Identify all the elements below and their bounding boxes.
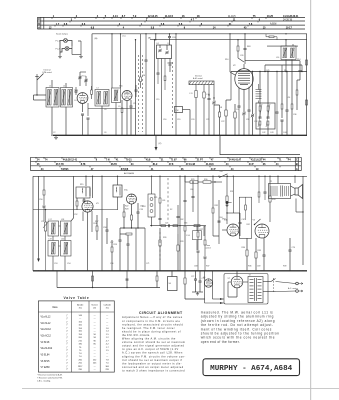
resistor R2	[91, 86, 93, 99]
svg-text:(C): (C)	[123, 36, 126, 38]
svg-text:L1: L1	[49, 85, 51, 87]
right edge component column	[296, 34, 307, 136]
detector filter box	[186, 226, 202, 250]
V4 grid network	[212, 176, 227, 244]
locating strip frame top	[37, 17, 305, 29]
arrow lower left	[37, 256, 40, 262]
capacitor C41	[276, 71, 279, 135]
mains unit box	[224, 274, 268, 305]
svg-text:R19: R19	[114, 244, 117, 246]
svg-text:A.C. mains: A.C. mains	[288, 287, 298, 290]
capacitor C15 below discriminator	[157, 59, 160, 85]
mid strip numbers row 3	[40, 166, 280, 171]
wires IF block	[53, 176, 77, 270]
trimmer TC1	[78, 72, 87, 86]
svg-text:output and the signal generato: output and the signal generator adjusted	[122, 344, 185, 348]
resistor R28	[177, 234, 179, 271]
svg-text:C23: C23	[165, 223, 168, 225]
resistor R26	[159, 228, 161, 271]
pilot lamp PL1	[56, 39, 68, 43]
HT rail top	[92, 34, 307, 90]
svg-text:47.41.48: 47.41.48	[186, 163, 196, 166]
svg-text:71 97: 71 97	[171, 160, 178, 162]
FM discriminator trimmer box	[157, 43, 172, 59]
svg-text:C52: C52	[74, 214, 77, 216]
svg-text:T1: T1	[270, 181, 272, 183]
svg-text:11,16,5: 11,16,5	[165, 15, 174, 18]
svg-text:A.C.) across the speech coil L: A.C.) across the speech coil L28. When	[122, 351, 183, 355]
svg-text:MURPHY - A674,A684: MURPHY - A674,A684	[210, 365, 292, 373]
output valve V5	[255, 224, 269, 238]
svg-text:control: control	[205, 247, 211, 250]
HT rail lower section	[33, 175, 307, 177]
mains transformer T2	[248, 275, 263, 303]
svg-text:4,14: 4,14	[113, 15, 118, 18]
svg-text:8/7(4)8: 8/7(4)8	[121, 168, 129, 171]
svg-text:L18: L18	[61, 219, 64, 221]
chassis earth bus top section	[53, 134, 307, 136]
svg-text:R17: R17	[95, 221, 98, 223]
svg-text:C.54: C.54	[186, 235, 190, 237]
junction dots lower bus	[38, 270, 304, 271]
MW aerial coil L11	[190, 85, 198, 135]
svg-text:S2: S2	[170, 209, 172, 211]
svg-text:C53: C53	[54, 263, 57, 265]
capacitor C55	[83, 198, 86, 203]
svg-text:C43: C43	[270, 132, 273, 134]
mains dropper	[184, 271, 205, 299]
svg-text:(A): (A)	[95, 37, 98, 40]
svg-text:45,8: 45,8	[146, 159, 151, 162]
strip numbers row 4	[49, 27, 293, 30]
oscillator coil L4 can	[112, 88, 121, 103]
loudspeaker	[295, 185, 303, 199]
ground scale lamps right	[80, 55, 82, 57]
IF transformer IFT3 can pair	[48, 238, 71, 256]
svg-text:C62: C62	[180, 219, 183, 221]
svg-text:43,21,6,25: 43,21,6,25	[251, 159, 263, 162]
svg-text:trol should be set at maximum: trol should be set at maximum output if	[122, 358, 182, 362]
valve table rows	[41, 315, 110, 371]
left edge column	[33, 176, 39, 270]
svg-text:24 P: 24 P	[211, 168, 216, 171]
IF amplifier valve V3	[82, 201, 93, 212]
labels above lower bus	[194, 266, 286, 268]
svg-text:C69: C69	[257, 266, 260, 268]
svg-text:{†: {†	[67, 362, 69, 364]
svg-text:C67: C67	[242, 219, 245, 221]
svg-text:V1a 6L12: V1a 6L12	[41, 316, 52, 318]
svg-text:12,13,15: 12,13,15	[148, 15, 158, 18]
svg-text:CIRCUIT ALIGNMENT: CIRCUIT ALIGNMENT	[139, 311, 183, 315]
svg-text:295†: 295†	[78, 366, 83, 368]
svg-text:C21: C21	[206, 119, 209, 121]
svg-text:B: B	[296, 162, 298, 166]
svg-text:C50: C50	[39, 199, 42, 201]
svg-text:L10: L10	[276, 57, 279, 59]
svg-text:Internal: Internal	[44, 68, 51, 71]
svg-text:(V): (V)	[79, 308, 82, 310]
svg-text:8,7: 8,7	[122, 15, 126, 18]
svg-text:C42: C42	[262, 132, 265, 134]
svg-text:R39: R39	[283, 266, 286, 268]
svg-text:V5 EL84: V5 EL84	[41, 355, 51, 357]
smoothing electrolytics C72 C73	[191, 271, 205, 295]
svg-text:C66: C66	[190, 189, 193, 191]
detector load network	[123, 203, 143, 228]
svg-text:to match 3 ohms impedance is c: to match 3 ohms impedance is connected	[122, 368, 185, 372]
V5 screen components	[258, 176, 266, 203]
IF transformer IFT2 can pair	[48, 219, 71, 236]
svg-text:or components in the F.M. circ: or components in the F.M. circuits are	[122, 319, 180, 323]
svg-text:V2b 6C12: V2b 6C12	[41, 335, 52, 337]
capacitor C58	[103, 218, 109, 244]
model title box	[203, 359, 300, 376]
circuit alignment paragraph 2	[122, 337, 186, 373]
grid resistor R19	[111, 240, 117, 271]
svg-text:R21: R21	[154, 197, 157, 199]
trimmer C32b	[251, 71, 254, 135]
svg-text:C63: C63	[184, 222, 187, 224]
capacitor C9	[130, 100, 133, 116]
svg-text:Internal: Internal	[195, 75, 202, 78]
svg-text:L3: L3	[97, 87, 99, 89]
svg-text:C70: C70	[292, 247, 295, 249]
svg-text:{†: {†	[67, 324, 69, 326]
pilot lamp PL2	[56, 47, 70, 51]
strip numbers row 1	[52, 15, 274, 19]
svg-text:Screen: Screen	[91, 304, 98, 307]
mid strip numbers row 1	[36, 157, 291, 161]
svg-text:C56: C56	[110, 263, 113, 265]
speaker wires	[277, 176, 295, 196]
svg-text:(V): (V)	[106, 308, 109, 310]
svg-text:S4: S4	[169, 283, 171, 285]
svg-text:11,16,5: 11,16,5	[228, 16, 236, 18]
V3 stage wires	[83, 176, 103, 271]
screen feed resistor	[269, 176, 276, 222]
svg-text:T2: T2	[249, 275, 251, 277]
rectifier wires	[228, 271, 248, 297]
svg-text:L2: L2	[63, 85, 65, 87]
mains switch S5	[263, 278, 276, 292]
svg-text:C11: C11	[133, 103, 136, 105]
capacitor C39 on V2 pin	[248, 100, 251, 135]
chassis earth bus lower section	[33, 270, 307, 272]
svg-text:volume control should be set a: volume control should be set at maximum	[122, 340, 185, 344]
svg-text:S10: S10	[220, 171, 223, 173]
svg-text:C68: C68	[194, 266, 197, 268]
svg-text:81.9: 81.9	[153, 164, 158, 166]
smoothing capacitor C65	[192, 181, 195, 212]
svg-text:C24: C24	[172, 37, 175, 39]
svg-text:41.46,6: 41.46,6	[206, 163, 214, 166]
junction dots chassis bus	[51, 135, 292, 136]
svg-text:‡ A.C. reading.: ‡ A.C. reading.	[37, 380, 51, 383]
switch S2 dashes left	[159, 232, 161, 234]
switch gang dashed line left	[138, 55, 140, 57]
decoupling electrolytic with ground	[222, 176, 234, 221]
oscillator valve V1b	[122, 91, 132, 101]
svg-text:L26: L26	[287, 97, 290, 99]
switch gang dashes mid	[172, 62, 174, 64]
tone capacitor C70	[289, 238, 295, 271]
svg-text:74/78/1: 74/78/1	[61, 168, 69, 171]
svg-text:L.W: L.W	[175, 110, 178, 112]
AM IFT cluster box	[256, 71, 275, 135]
svg-text:R18: R18	[94, 223, 97, 225]
oscillator section L8	[220, 72, 231, 136]
svg-text:L20: L20	[61, 238, 64, 240]
negative feedback line	[296, 176, 304, 265]
LW aerial coil L12	[203, 85, 210, 135]
svg-text:C26: C26	[240, 55, 243, 57]
svg-text:should be in place during alig: should be in place during alignment of	[122, 329, 181, 333]
svg-text:47.8: 47.8	[169, 163, 174, 166]
output transformer T1	[269, 181, 291, 198]
svg-text:be realigned. The F.M. tuner: be realigned. The F.M. tuner cover	[122, 326, 175, 330]
strip numbers row 2	[70, 19, 261, 23]
aerial feeder wires	[34, 94, 47, 100]
capacitor C7	[135, 85, 138, 97]
V3 grid cluster box	[76, 184, 90, 198]
svg-text:Anode: Anode	[77, 304, 84, 307]
svg-text:A: A	[296, 167, 298, 171]
valve table footnotes	[37, 373, 63, 382]
HT dropper resistors	[185, 176, 222, 183]
svg-text:R26: R26	[163, 237, 166, 239]
svg-text:F/M aerial: F/M aerial	[43, 71, 53, 74]
internal FM aerial label	[43, 68, 53, 74]
FM aerial dipole	[35, 74, 43, 96]
svg-text:open end of the former.: open end of the former.	[201, 340, 240, 344]
coupling capacitor C67	[226, 212, 245, 236]
detector output chain	[150, 222, 204, 236]
svg-text:C60: C60	[140, 206, 143, 208]
svg-text:24 26 36: 24 26 36	[283, 20, 293, 22]
tone switch enclosure box	[239, 197, 251, 238]
svg-text:C51: C51	[41, 221, 44, 223]
resistor R21	[159, 196, 161, 212]
svg-text:Cathode: Cathode	[104, 304, 111, 307]
svg-text:R22: R22	[125, 206, 128, 208]
capacitor C17	[208, 85, 211, 135]
svg-text:{†: {†	[67, 369, 69, 371]
V2 anode ladder ticks	[256, 84, 262, 103]
valve table box	[38, 301, 114, 372]
svg-text:R31: R31	[215, 205, 218, 207]
FM RF coil L2 can	[61, 88, 73, 108]
circuit alignment paragraph 1	[122, 315, 183, 337]
rectifier valve V7	[228, 276, 243, 288]
mid strip numbers row 2	[36, 161, 279, 166]
svg-text:V1b 6L12: V1b 6L12	[41, 323, 52, 325]
component value labels	[41, 55, 300, 265]
resistor R6	[140, 70, 145, 88]
svg-text:When aligning the A.M. circuit: When aligning the A.M. circuits the	[122, 337, 176, 341]
svg-text:L9: L9	[237, 109, 239, 111]
ratio detector transformer	[113, 176, 122, 210]
svg-text:36.78: 36.78	[111, 164, 118, 166]
svg-text:{†: {†	[67, 343, 69, 345]
svg-text:C59: C59	[140, 209, 143, 211]
capacitor C61b	[159, 212, 162, 226]
svg-text:C61: C61	[162, 200, 165, 202]
svg-text:the loudspeaker or output mete: the loudspeaker or output meter is dis-	[122, 361, 182, 365]
resistor R9	[164, 59, 166, 91]
svg-text:connected and an output meter: connected and an output meter adjusted	[122, 365, 184, 369]
svg-text:aligning the F.M. circuits the: aligning the F.M. circuits the volume co…	[122, 354, 186, 358]
page bottom edge	[22, 388, 339, 390]
svg-text:34 40,41,47: 34 40,41,47	[229, 159, 242, 162]
svg-text:C19: C19	[177, 119, 180, 121]
resistor R18	[94, 215, 99, 240]
svg-text:R33: R33	[272, 199, 275, 201]
link wire to lower section	[220, 135, 300, 154]
svg-text:C72: C72	[191, 276, 194, 278]
mixer stage coupling wires	[111, 33, 121, 88]
resistor R15	[39, 176, 46, 221]
FM IFT can right top	[281, 46, 296, 60]
svg-text:{†: {†	[67, 350, 69, 352]
V4 anode load	[226, 176, 228, 224]
svg-text:(K): (K)	[159, 143, 162, 145]
V2 anode supply chain	[237, 33, 250, 64]
capacitor C24	[168, 33, 175, 45]
svg-text:21 P7: 21 P7	[197, 160, 204, 162]
svg-text:R29: R29	[191, 179, 194, 181]
RF amplifier valve V1a	[77, 93, 88, 104]
svg-text:7 N: 7 N	[106, 160, 110, 162]
svg-text:C58: C58	[103, 227, 106, 229]
grid references top right	[228, 15, 299, 26]
switch S3 contact	[254, 219, 261, 225]
svg-text:19 17: 19 17	[286, 27, 293, 30]
AM detector components	[119, 227, 146, 270]
svg-text:R63: R63	[247, 46, 250, 48]
FM aerial input stub	[168, 59, 173, 73]
svg-text:C20: C20	[191, 119, 194, 121]
svg-text:C31: C31	[246, 119, 249, 121]
svg-text:F4: F4	[157, 43, 159, 45]
svg-text:44,9,28 12 41: 44,9,28 12 41	[63, 159, 78, 162]
svg-text:V3 6F18: V3 6F18	[41, 342, 51, 344]
mid columns	[159, 176, 160, 196]
wire mixer output columns	[155, 33, 177, 135]
svg-text:R35: R35	[258, 250, 261, 252]
svg-text:8: 8	[168, 43, 169, 45]
HT rail second	[150, 33, 307, 40]
svg-text:C36: C36	[293, 114, 296, 116]
svg-text:{†: {†	[67, 331, 69, 333]
switch gang dashed line right	[142, 55, 144, 57]
frequency changer valve V2	[233, 64, 253, 104]
capacitor C38 on V2 pin	[238, 100, 241, 135]
page right edge	[310, 0, 312, 400]
svg-text:(V): (V)	[93, 308, 96, 310]
svg-text:C9: C9	[118, 106, 120, 108]
stage link wire	[88, 108, 136, 110]
V5 cathode bias	[255, 238, 266, 271]
svg-text:C8: C8	[104, 109, 106, 111]
svg-text:{†: {†	[67, 318, 69, 320]
mixer IFT wires	[285, 40, 293, 73]
svg-text:A,B,M: A,B,M	[270, 23, 276, 26]
right text column	[201, 311, 280, 344]
svg-text:Scale lamps: Scale lamps	[56, 33, 69, 35]
svg-text:† Receiver switched to F.M.: † Receiver switched to F.M.	[37, 377, 63, 380]
wires oscillator section	[116, 34, 141, 135]
svg-text:V2a 6C12: V2a 6C12	[41, 329, 52, 331]
svg-text:the F.M. R.F. circuits.: the F.M. R.F. circuits.	[122, 333, 150, 337]
svg-text:C6: C6	[104, 132, 106, 134]
svg-text:Valve Table: Valve Table	[64, 296, 90, 300]
rail switch contact	[218, 171, 228, 178]
wires V1a stage	[52, 80, 102, 135]
svg-text:8.78: 8.78	[81, 164, 86, 166]
svg-text:R20: R20	[125, 209, 128, 211]
svg-text:24 P: 24 P	[249, 163, 254, 166]
svg-text:R10: R10	[225, 59, 228, 61]
capacitor C10	[145, 34, 148, 135]
tuning indicator V6	[203, 277, 213, 287]
svg-text:Valve: Valve	[52, 307, 58, 309]
trimmer C18	[212, 85, 215, 135]
AF coupling capacitor C62	[177, 205, 184, 234]
svg-text:L17: L17	[49, 219, 52, 221]
capacitor C63 column	[184, 176, 187, 271]
V5 grid resistor	[242, 238, 249, 271]
svg-text:V6 6P15: V6 6P15	[41, 361, 51, 363]
svg-text:C54: C54	[67, 263, 70, 265]
resistor R7	[121, 100, 123, 120]
svg-text:V7 EZ80: V7 EZ80	[41, 367, 51, 369]
node K arrow	[155, 135, 162, 150]
IF coupling cluster right	[281, 60, 293, 136]
scale lamp wiring	[60, 41, 81, 55]
oscillator section L9	[234, 104, 239, 135]
svg-text:C44: C44	[283, 132, 286, 134]
svg-text:R32: R32	[230, 191, 233, 193]
svg-text:C2: C2	[53, 132, 55, 134]
svg-text:V4a 6LD12: V4a 6LD12	[41, 348, 53, 350]
volume control VR1	[142, 176, 155, 271]
FM coil L3 can	[95, 90, 109, 107]
svg-text:14,16,28,20,21: 14,16,28,20,21	[283, 15, 299, 18]
valve table header	[52, 304, 111, 310]
resistor R16	[76, 198, 78, 210]
AGC potentiometer	[43, 210, 49, 271]
junction dots rails	[135, 33, 287, 40]
V2 screen wire	[230, 34, 235, 75]
right area coupling wires	[231, 46, 307, 72]
below bus network left	[57, 271, 160, 288]
svg-text:(B): (B)	[148, 37, 151, 39]
switch S2 dashes right	[167, 178, 169, 180]
svg-text:TC1: TC1	[82, 76, 86, 78]
svg-text:A: A	[38, 25, 40, 29]
svg-text:R27: R27	[200, 229, 203, 231]
svg-text:C15: C15	[156, 99, 159, 101]
tone control label	[205, 245, 211, 250]
svg-text:C57: C57	[110, 242, 113, 244]
svg-text:Adjustment Notes.—If any of th: Adjustment Notes.—If any of the valves	[122, 315, 183, 319]
capacitor C3	[75, 87, 78, 95]
svg-text:R34: R34	[242, 247, 245, 249]
svg-text:10,25: 10,25	[267, 15, 274, 18]
mid locating strip frame	[31, 157, 302, 170]
AF amp valve V4b	[227, 224, 239, 236]
